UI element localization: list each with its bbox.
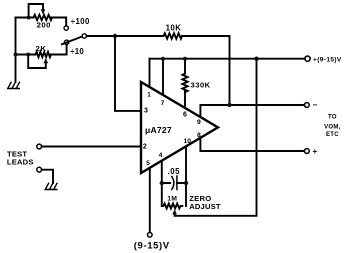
wire 330K branch xyxy=(184,59,186,108)
svg-text:4: 4 xyxy=(159,152,163,159)
terminal minus xyxy=(304,103,309,108)
wire pin3 feed xyxy=(115,36,141,111)
node cap left junction xyxy=(160,181,164,185)
resistor 2K xyxy=(36,52,52,57)
svg-text:(9-15)V: (9-15)V xyxy=(134,241,170,252)
svg-text:+: + xyxy=(313,147,318,156)
terminal test lead 2 xyxy=(37,167,42,172)
svg-text:10K: 10K xyxy=(166,24,182,33)
svg-text:5: 5 xyxy=(146,160,150,167)
switch contact DIV10 xyxy=(64,40,68,44)
node rail junction xyxy=(113,34,117,38)
svg-text:9: 9 xyxy=(197,119,201,126)
wire pin10 vertical xyxy=(185,146,187,206)
resistor 10K xyxy=(164,33,183,39)
svg-text:+(9-15)V: +(9-15)V xyxy=(313,56,342,63)
svg-text:÷10: ÷10 xyxy=(70,47,84,56)
node 10K-output junction xyxy=(227,103,231,107)
wire pin2 feed xyxy=(42,146,141,148)
svg-text:200: 200 xyxy=(37,20,51,29)
wire pin7 stub xyxy=(162,59,164,95)
node rail-2K junction xyxy=(14,53,18,57)
node pin7 junction xyxy=(161,57,165,61)
svg-text:7: 7 xyxy=(161,100,165,107)
terminal plus xyxy=(304,149,309,154)
svg-text:ADJUST: ADJUST xyxy=(189,202,221,211)
svg-text:÷100: ÷100 xyxy=(71,17,90,26)
node 330K junction xyxy=(183,57,187,61)
wire 2K wiper loop xyxy=(28,55,46,69)
svg-text:1M: 1M xyxy=(167,196,177,203)
op-amp U1 triangle xyxy=(141,82,218,173)
pot arrow 2K xyxy=(44,58,49,63)
switch pole xyxy=(82,34,86,38)
wire supply rail xyxy=(150,58,305,60)
pot arrow 1M xyxy=(172,209,177,214)
wire 2K branch xyxy=(16,45,67,55)
svg-text:2K: 2K xyxy=(35,44,46,53)
terminal +supply xyxy=(305,56,310,61)
resistor 200 xyxy=(34,15,53,20)
terminal -supply xyxy=(148,233,153,238)
svg-text:1: 1 xyxy=(147,92,151,99)
node zero-adjust rail junction xyxy=(254,57,258,61)
svg-text:VOM,: VOM, xyxy=(324,124,341,130)
wire test lead ground xyxy=(42,170,53,183)
node 2K left junction xyxy=(26,53,30,57)
capacitor .05 xyxy=(172,177,174,190)
svg-text:10: 10 xyxy=(184,138,192,145)
wire pin9 stub xyxy=(200,105,304,117)
svg-text:.05: .05 xyxy=(168,167,181,176)
svg-text:LEADS: LEADS xyxy=(7,158,34,167)
wire zero-adjust wiper xyxy=(175,59,257,216)
wire top rail xyxy=(87,36,230,105)
svg-text:ETC: ETC xyxy=(326,132,339,138)
wire pin8 stub xyxy=(200,138,304,151)
switch contact DIV100 xyxy=(64,26,68,30)
node 200 left junction xyxy=(27,16,31,20)
wire pin1 stub xyxy=(149,59,151,87)
wire 200 wiper loop xyxy=(29,4,43,18)
svg-text:μA727: μA727 xyxy=(145,125,172,135)
wire pin5 supply xyxy=(149,168,151,233)
svg-text:3: 3 xyxy=(144,107,148,114)
switch arm xyxy=(62,37,82,45)
svg-text:2: 2 xyxy=(143,144,147,151)
svg-text:TO: TO xyxy=(328,115,337,121)
svg-text:330K: 330K xyxy=(191,81,211,90)
svg-text:−: − xyxy=(313,101,318,110)
wire pin4 vertical xyxy=(161,161,163,206)
pot arrow 200 xyxy=(41,9,46,14)
resistor 1M xyxy=(162,204,183,209)
svg-text:6: 6 xyxy=(183,112,187,119)
wire left rail xyxy=(15,18,17,83)
wire cap rail xyxy=(162,182,186,184)
node cap right junction xyxy=(184,181,188,185)
wire 200 branch xyxy=(16,18,67,26)
terminal test lead 1 xyxy=(37,144,42,149)
ground test lead xyxy=(45,183,57,189)
resistor 330K xyxy=(182,74,187,93)
ground xyxy=(8,82,20,88)
svg-text:8: 8 xyxy=(197,132,201,139)
